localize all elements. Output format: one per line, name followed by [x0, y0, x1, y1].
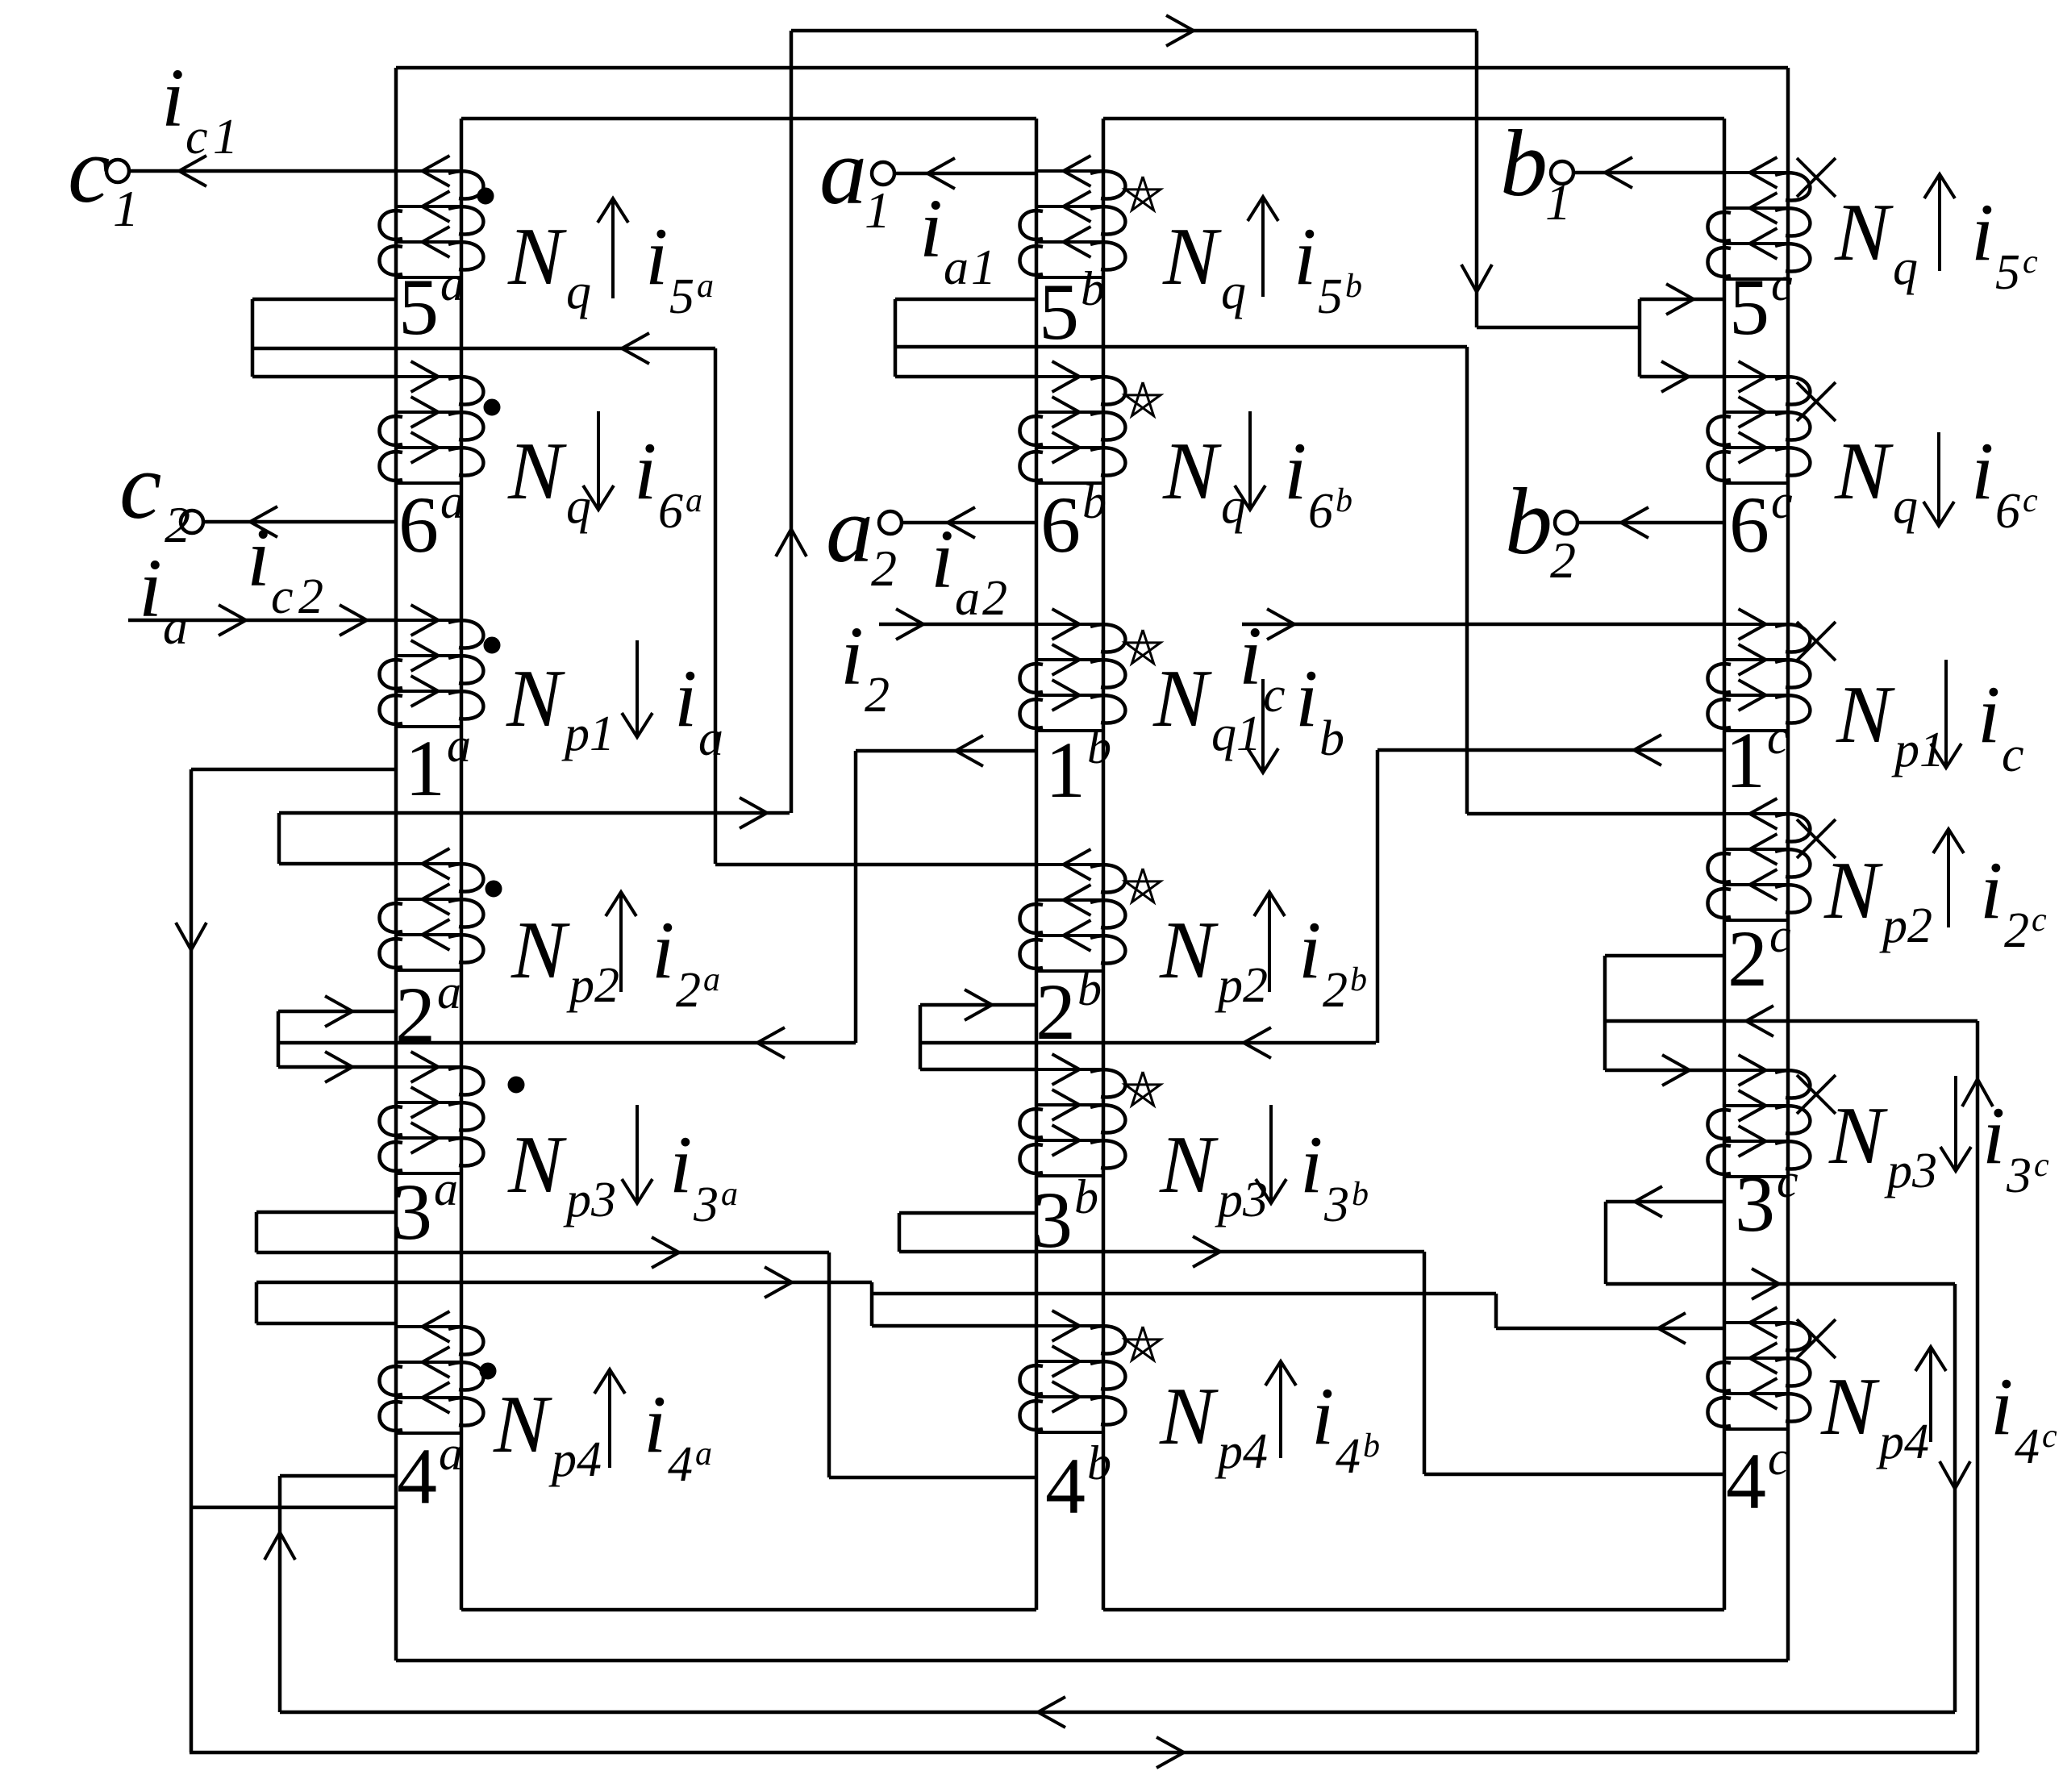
svg-text:c: c [1777, 1154, 1798, 1207]
svg-text:N: N [1159, 1371, 1219, 1462]
svg-text:i: i [1284, 426, 1307, 517]
svg-text:c: c [2042, 1418, 2057, 1455]
svg-text:i: i [1971, 426, 1994, 517]
svg-text:i: i [645, 211, 668, 302]
svg-text:i: i [1971, 187, 1994, 278]
svg-text:b: b [1081, 262, 1105, 315]
svg-text:p2: p2 [1879, 898, 1932, 953]
svg-text:p4: p4 [548, 1432, 602, 1487]
svg-text:i: i [652, 905, 674, 996]
svg-text:6: 6 [1729, 480, 1769, 569]
svg-text:b: b [1087, 1436, 1111, 1490]
svg-text:a: a [955, 571, 980, 626]
svg-text:5: 5 [1995, 245, 2020, 300]
svg-text:2: 2 [871, 540, 897, 597]
svg-text:p2: p2 [1215, 958, 1268, 1013]
svg-text:N: N [1152, 653, 1212, 744]
svg-text:a: a [698, 711, 723, 766]
svg-text:2: 2 [865, 668, 890, 723]
svg-text:2: 2 [982, 571, 1007, 626]
svg-text:i: i [1982, 1090, 2005, 1181]
svg-text:2: 2 [1728, 914, 1768, 1003]
svg-text:N: N [1836, 669, 1895, 761]
svg-text:3: 3 [2006, 1148, 2032, 1203]
svg-text:a: a [440, 475, 465, 528]
svg-text:i: i [1294, 211, 1316, 302]
svg-text:b: b [1352, 1176, 1369, 1213]
svg-text:q: q [1893, 240, 1918, 295]
svg-text:4: 4 [1336, 1429, 1361, 1484]
svg-text:2: 2 [1323, 963, 1348, 1018]
svg-text:5: 5 [1039, 267, 1079, 356]
svg-text:1: 1 [1725, 715, 1765, 805]
svg-text:i: i [644, 1379, 666, 1470]
svg-text:q: q [1893, 479, 1918, 534]
svg-text:b: b [1319, 711, 1344, 766]
svg-text:c: c [2002, 727, 2024, 782]
svg-text:a: a [439, 1427, 463, 1480]
svg-text:a: a [944, 240, 969, 295]
svg-text:4: 4 [1726, 1436, 1766, 1526]
svg-text:a: a [437, 965, 461, 1019]
svg-text:i: i [674, 653, 697, 744]
svg-text:a: a [447, 719, 471, 772]
svg-text:a: a [697, 268, 714, 305]
svg-text:i: i [1298, 905, 1321, 996]
svg-text:1: 1 [1545, 173, 1571, 231]
svg-text:i: i [1300, 1119, 1323, 1211]
svg-text:b: b [1350, 961, 1367, 998]
svg-text:4: 4 [397, 1432, 437, 1521]
svg-text:N: N [1162, 426, 1222, 517]
svg-text:a: a [703, 961, 720, 998]
svg-text:q: q [566, 479, 591, 534]
svg-text:c: c [1263, 668, 1286, 723]
svg-text:a: a [434, 1162, 458, 1215]
svg-text:6: 6 [1995, 484, 2020, 539]
svg-text:i: i [931, 513, 954, 606]
svg-text:i: i [247, 511, 270, 604]
svg-text:c: c [1771, 257, 1793, 310]
svg-text:b: b [1345, 268, 1362, 305]
svg-text:1: 1 [213, 110, 238, 165]
svg-text:2: 2 [395, 970, 436, 1060]
svg-text:4: 4 [2015, 1419, 2040, 1474]
svg-text:c: c [1768, 1432, 1790, 1485]
svg-text:N: N [507, 211, 567, 302]
svg-text:p4: p4 [1876, 1415, 1929, 1469]
svg-text:b: b [1074, 1170, 1098, 1223]
svg-text:N: N [507, 1119, 567, 1211]
svg-text:i: i [139, 542, 162, 635]
svg-text:i: i [634, 426, 656, 517]
svg-text:q: q [1221, 265, 1246, 319]
svg-text:p2: p2 [566, 958, 619, 1013]
svg-text:5: 5 [398, 262, 439, 352]
svg-text:2: 2 [298, 569, 323, 624]
svg-text:i: i [919, 182, 943, 275]
svg-text:b: b [1500, 110, 1548, 216]
svg-text:c: c [1769, 909, 1791, 962]
svg-text:i: i [669, 1119, 692, 1211]
svg-text:4: 4 [668, 1437, 693, 1492]
svg-text:c: c [1767, 711, 1789, 764]
svg-text:1: 1 [1045, 725, 1086, 815]
svg-text:2: 2 [2004, 903, 2029, 958]
svg-text:c: c [2032, 902, 2047, 939]
svg-text:2: 2 [165, 496, 190, 553]
svg-text:5: 5 [1318, 269, 1343, 324]
svg-text:q1: q1 [1211, 706, 1261, 761]
svg-text:c: c [2023, 244, 2038, 281]
svg-text:1: 1 [405, 723, 445, 813]
svg-text:c: c [2034, 1147, 2049, 1184]
svg-text:a: a [819, 119, 867, 224]
svg-text:5: 5 [669, 269, 694, 324]
svg-text:p3: p3 [1215, 1173, 1268, 1227]
svg-text:a: a [686, 482, 702, 519]
svg-text:2: 2 [1550, 531, 1576, 589]
svg-text:6: 6 [1308, 484, 1333, 539]
svg-text:i: i [161, 52, 185, 144]
svg-text:1: 1 [113, 180, 139, 237]
svg-text:N: N [1834, 426, 1894, 517]
svg-text:6: 6 [658, 484, 683, 539]
svg-text:i: i [1311, 1371, 1334, 1462]
svg-text:6: 6 [1040, 480, 1081, 569]
svg-text:3: 3 [392, 1167, 432, 1256]
svg-text:p3: p3 [563, 1173, 616, 1227]
svg-text:a: a [721, 1176, 738, 1213]
svg-text:a: a [163, 600, 188, 655]
svg-text:3: 3 [693, 1177, 719, 1232]
svg-text:N: N [493, 1379, 552, 1470]
svg-text:i: i [840, 610, 864, 702]
svg-text:b: b [1087, 720, 1111, 773]
svg-text:b: b [1082, 475, 1107, 528]
svg-text:N: N [1823, 845, 1883, 936]
svg-text:b: b [1363, 1427, 1380, 1465]
svg-text:a: a [695, 1436, 712, 1473]
svg-text:a: a [826, 477, 873, 582]
svg-text:c: c [68, 117, 110, 223]
svg-text:p3: p3 [1884, 1144, 1937, 1198]
svg-text:b: b [1336, 482, 1352, 519]
svg-text:i: i [1978, 669, 2000, 761]
svg-text:6: 6 [398, 480, 439, 569]
svg-text:c: c [185, 110, 208, 165]
svg-text:4: 4 [1045, 1441, 1086, 1531]
svg-text:N: N [511, 905, 570, 996]
svg-text:c: c [119, 433, 161, 539]
svg-text:N: N [1162, 211, 1222, 302]
svg-text:i: i [1990, 1361, 2013, 1452]
svg-text:N: N [1820, 1361, 1880, 1452]
svg-text:N: N [506, 653, 565, 744]
svg-text:b: b [1077, 962, 1102, 1015]
svg-text:c: c [1771, 475, 1793, 528]
svg-text:3: 3 [1735, 1159, 1775, 1248]
svg-text:i: i [1980, 845, 2003, 936]
svg-text:c: c [2023, 482, 2038, 519]
svg-text:5: 5 [1729, 262, 1769, 352]
svg-text:N: N [507, 426, 567, 517]
svg-text:c: c [271, 569, 294, 624]
svg-text:b: b [1505, 469, 1552, 574]
svg-text:i: i [1295, 653, 1318, 744]
svg-text:3: 3 [1323, 1177, 1349, 1232]
svg-text:p1: p1 [561, 706, 615, 761]
svg-text:3: 3 [1032, 1175, 1073, 1265]
svg-text:i: i [1239, 610, 1262, 702]
svg-text:N: N [1159, 1119, 1219, 1211]
svg-text:N: N [1828, 1090, 1888, 1181]
svg-text:N: N [1159, 905, 1219, 996]
svg-text:a: a [440, 257, 465, 310]
svg-text:2: 2 [676, 963, 701, 1018]
svg-text:q: q [1221, 479, 1246, 534]
svg-text:p4: p4 [1215, 1424, 1268, 1479]
svg-text:N: N [1834, 187, 1894, 278]
svg-text:q: q [566, 265, 591, 319]
svg-text:1: 1 [971, 240, 996, 295]
svg-text:1: 1 [865, 181, 890, 239]
svg-text:2: 2 [1036, 967, 1076, 1056]
